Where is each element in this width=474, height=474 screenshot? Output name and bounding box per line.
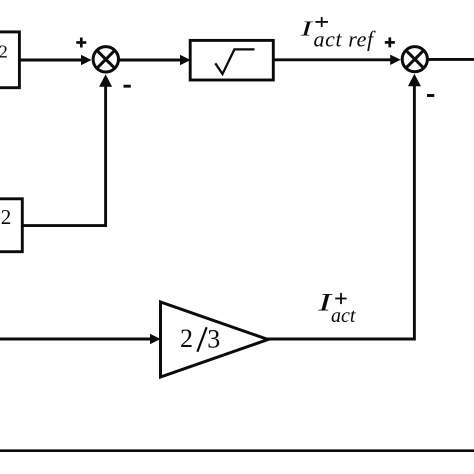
svg-text:2: 2	[0, 42, 8, 62]
svg-text:2: 2	[180, 324, 193, 353]
svg-text:act: act	[331, 305, 356, 327]
svg-text:act ref: act ref	[314, 27, 376, 52]
svg-text:3: 3	[207, 324, 220, 353]
svg-text:2: 2	[1, 205, 12, 229]
svg-text:I: I	[300, 18, 314, 41]
